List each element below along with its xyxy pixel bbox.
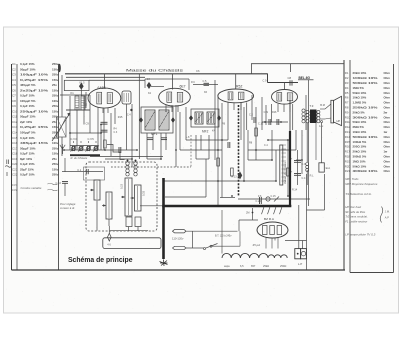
svg-text:657: 657: [251, 264, 256, 268]
svg-text:R2: R2: [345, 76, 349, 80]
svg-text:C13: C13: [12, 125, 18, 129]
svg-text:R6: R6: [345, 96, 349, 100]
svg-text:150v: 150v: [52, 88, 59, 92]
svg-text:C22: C22: [12, 173, 18, 177]
svg-text:C4: C4: [147, 77, 151, 81]
svg-text:C11: C11: [12, 115, 17, 119]
svg-text:6E7: 6E7: [180, 85, 186, 89]
svg-text:R9: R9: [345, 110, 349, 114]
svg-text:B.T. 110 à 245v: B.T. 110 à 245v: [215, 234, 232, 237]
svg-text:250v: 250v: [52, 162, 59, 166]
svg-text:C20: C20: [12, 162, 18, 166]
svg-text:C12: C12: [12, 120, 18, 124]
svg-text:0,33: 0,33: [142, 190, 146, 196]
svg-text:150v: 150v: [52, 67, 59, 71]
svg-text:R12: R12: [345, 125, 351, 129]
svg-text:R1: R1: [345, 71, 349, 75]
svg-text:C.V.O: C.V.O: [71, 137, 78, 141]
svg-text:R14: R14: [345, 135, 351, 139]
svg-text:1MΩ 10%: 1MΩ 10%: [353, 159, 366, 163]
svg-text:R21: R21: [345, 169, 351, 173]
svg-text:C9: C9: [86, 122, 90, 126]
svg-text:C.1: C.1: [77, 168, 82, 172]
svg-text:R4: R4: [345, 86, 349, 90]
svg-text:25kΩ: 25kΩ: [263, 264, 269, 268]
svg-text:R16: R16: [272, 111, 277, 114]
svg-text:T.3: T.3: [310, 104, 314, 108]
svg-text:500kΩ 10%: 500kΩ 10%: [353, 135, 379, 139]
svg-text:150v: 150v: [52, 167, 59, 171]
svg-text:250Ω: 250Ω: [280, 264, 286, 268]
svg-text:MF1: MF1: [151, 132, 158, 136]
svg-text:R8: R8: [345, 106, 349, 110]
svg-text:R5: R5: [345, 91, 349, 95]
svg-text:C4: C4: [12, 78, 16, 82]
svg-text:0,1µF 15%: 0,1µF 15%: [20, 162, 35, 166]
svg-text:K1: K1: [71, 91, 75, 95]
svg-text:MF2: MF2: [202, 130, 209, 134]
svg-text:C14: C14: [12, 131, 18, 135]
svg-text:aspa: aspa: [224, 265, 230, 268]
svg-text:CV1: CV1: [12, 183, 18, 187]
svg-text:500kΩ 10%: 500kΩ 10%: [353, 81, 379, 85]
svg-text:C6: C6: [12, 88, 16, 92]
svg-text:C7: C7: [12, 94, 16, 98]
svg-text:R. du Châssis: R. du Châssis: [71, 156, 88, 160]
svg-text:0,22: 0,22: [120, 183, 124, 189]
svg-text:Ohm: Ohm: [384, 101, 391, 105]
svg-text:50µµF 15%: 50µµF 15%: [20, 115, 36, 119]
svg-text:Tr2 trans.modulat.: Tr2 trans.modulat.: [345, 215, 368, 219]
svg-text:10kΩ 10%: 10kΩ 10%: [353, 130, 367, 134]
svg-text:0,1µF 10%: 0,1µF 10%: [20, 136, 35, 140]
svg-text:C1: C1: [12, 62, 16, 66]
svg-text:8µF 10%: 8µF 10%: [20, 157, 32, 161]
svg-text:2µF 10%: 2µF 10%: [20, 120, 32, 124]
svg-text:R3: R3: [345, 81, 349, 85]
svg-text:50µµF 10%: 50µµF 10%: [20, 67, 36, 71]
svg-text:CV2: CV2: [12, 188, 18, 192]
svg-text:F1 fusible secteur: F1 fusible secteur: [345, 219, 368, 223]
svg-text:C6: C6: [196, 69, 200, 73]
svg-text:150v: 150v: [52, 109, 59, 113]
svg-text:K1,5: K1,5: [80, 81, 86, 84]
svg-text:Ohm: Ohm: [384, 135, 391, 139]
svg-text:C.5: C.5: [203, 80, 208, 83]
svg-text:100µµF 10%: 100µµF 10%: [20, 73, 49, 77]
svg-text:C17: C17: [12, 146, 18, 150]
svg-text:250µµF 10%: 250µµF 10%: [20, 109, 49, 113]
svg-text:Ohm: Ohm: [384, 91, 391, 95]
svg-text:150v: 150v: [52, 78, 59, 82]
svg-text:C.24: C.24: [256, 200, 262, 203]
svg-text:20kΩ 10%: 20kΩ 10%: [353, 150, 367, 154]
svg-text:R15: R15: [118, 116, 123, 119]
svg-text:Exc: Exc: [326, 166, 331, 170]
svg-text:R7: R7: [345, 101, 349, 105]
svg-text:150v: 150v: [52, 152, 59, 156]
svg-text:250v: 250v: [52, 73, 59, 77]
svg-text:2MΩ 5%: 2MΩ 5%: [353, 125, 365, 129]
svg-text:50kΩ 10%: 50kΩ 10%: [353, 120, 367, 124]
svg-text:R.6: R.6: [191, 81, 195, 84]
svg-text:50kΩ 10%: 50kΩ 10%: [353, 164, 367, 168]
svg-text:R16: R16: [345, 145, 351, 149]
svg-text:Ohm: Ohm: [384, 140, 391, 144]
svg-text:100v: 100v: [52, 99, 59, 103]
svg-text:2M: 2M: [246, 212, 249, 215]
svg-text:250v: 250v: [52, 62, 59, 66]
svg-text:Ohm: Ohm: [384, 106, 391, 110]
svg-text:100µµF 5%: 100µµF 5%: [20, 99, 36, 103]
svg-text:250v: 250v: [52, 146, 59, 150]
svg-text:100kΩ 10%: 100kΩ 10%: [353, 76, 379, 80]
svg-text:L.P: L.P: [298, 262, 302, 266]
svg-text:C.V.5: C.V.5: [88, 137, 95, 141]
svg-text:C8: C8: [12, 99, 16, 103]
svg-text:C9: C9: [12, 104, 16, 108]
svg-text:R15: R15: [345, 140, 351, 144]
svg-text:R20: R20: [345, 164, 351, 168]
svg-text:Pour réglage: Pour réglage: [60, 202, 76, 206]
svg-text:MF1 Trafo: MF1 Trafo: [345, 177, 359, 181]
svg-text:0,25µF 15%: 0,25µF 15%: [20, 125, 49, 129]
svg-text:C16: C16: [12, 141, 18, 145]
svg-text:C.10: C.10: [56, 181, 62, 185]
svg-text:Ohm: Ohm: [384, 96, 391, 100]
svg-text:curseur à dr.: curseur à dr.: [60, 206, 75, 210]
svg-text:A.P: A.P: [385, 215, 389, 219]
svg-text:250v: 250v: [52, 173, 59, 177]
svg-text:Masse du Châssis: Masse du Châssis: [126, 68, 183, 72]
svg-text:20kΩ 5%: 20kΩ 5%: [353, 110, 366, 114]
svg-text:R13: R13: [345, 130, 351, 134]
svg-text:250kΩ 10%: 250kΩ 10%: [353, 106, 379, 110]
svg-text:BZ R.A: BZ R.A: [264, 217, 275, 221]
svg-text:R.14: R.14: [292, 189, 298, 192]
svg-text:C.4: C.4: [127, 113, 131, 116]
svg-text:R19: R19: [345, 159, 351, 163]
svg-text:6AB6: 6AB6: [98, 86, 106, 90]
svg-text:R5Z: R5Z: [236, 85, 242, 89]
svg-text:J.M.: J.M.: [385, 209, 390, 213]
svg-text:50kΩ 10%: 50kΩ 10%: [353, 91, 367, 95]
svg-text:20kΩ 10%: 20kΩ 10%: [353, 71, 367, 75]
svg-text:25v: 25v: [52, 83, 57, 87]
svg-text:4 6: 4 6: [107, 243, 111, 246]
svg-text:0,1µF 15%: 0,1µF 15%: [20, 104, 35, 108]
svg-text:R11: R11: [345, 120, 350, 124]
svg-text:Ohm: Ohm: [384, 115, 391, 119]
svg-text:C.9: C.9: [263, 79, 268, 82]
svg-text:R17: R17: [345, 150, 351, 154]
svg-text:300kΩ 10%: 300kΩ 10%: [353, 169, 379, 173]
svg-text:Ohm: Ohm: [384, 169, 391, 173]
svg-text:0,25µF 15%: 0,25µF 15%: [20, 78, 49, 82]
svg-text:C8: C8: [288, 76, 292, 80]
svg-text:HP: HP: [337, 119, 341, 123]
svg-text:R10: R10: [345, 115, 351, 119]
svg-text:C19: C19: [12, 157, 18, 161]
svg-text:C.3: C.3: [114, 131, 118, 134]
svg-text:0,5µF 10%: 0,5µF 10%: [20, 173, 35, 177]
svg-text:150v: 150v: [52, 125, 59, 129]
svg-text:Retour du Châssis: Retour du Châssis: [283, 161, 287, 184]
svg-text:BEL.6G: BEL.6G: [299, 76, 311, 80]
svg-text:C.12: C.12: [258, 123, 264, 126]
svg-text:45 µA: 45 µA: [253, 243, 261, 247]
svg-text:R18: R18: [345, 155, 351, 159]
svg-text:100kΩ 5%: 100kΩ 5%: [353, 140, 367, 144]
svg-text:Ohm: Ohm: [384, 86, 391, 90]
svg-text:25µF 15%: 25µF 15%: [20, 167, 34, 171]
svg-text:0,5µF 10%: 0,5µF 10%: [20, 94, 35, 98]
svg-text:0,1µF 15%: 0,1µF 15%: [20, 62, 35, 66]
svg-text:C3: C3: [12, 73, 16, 77]
svg-text:C18: C18: [12, 152, 18, 156]
svg-text:100v: 100v: [52, 141, 59, 145]
svg-text:10kΩ 10%: 10kΩ 10%: [353, 96, 367, 100]
svg-text:Ohm: Ohm: [384, 159, 391, 163]
svg-text:C.15: C.15: [271, 195, 277, 198]
svg-text:Ohm: Ohm: [384, 125, 391, 129]
svg-text:250Ω 10%: 250Ω 10%: [353, 145, 367, 149]
svg-text:100µµF 5%: 100µµF 5%: [20, 131, 36, 135]
svg-text:Ohm: Ohm: [384, 145, 391, 149]
svg-text:50µµF 10%: 50µµF 10%: [20, 146, 36, 150]
svg-text:C2: C2: [12, 67, 16, 71]
svg-text:SF selfs de filtre: SF selfs de filtre: [345, 210, 365, 214]
svg-text:C5: C5: [12, 83, 16, 87]
svg-text:25v: 25v: [52, 157, 57, 161]
svg-text:Ohm: Ohm: [384, 155, 391, 159]
svg-text:465µµF 5%: 465µµF 5%: [20, 83, 36, 87]
svg-text:110-120v: 110-120v: [172, 237, 184, 241]
svg-text:Ohm: Ohm: [384, 120, 391, 124]
svg-text:MF2 Moyenne fréquence: MF2 Moyenne fréquence: [345, 182, 378, 186]
svg-text:250v: 250v: [52, 104, 59, 108]
svg-text:C10: C10: [12, 109, 18, 113]
svg-text:Schéma de principe: Schéma de principe: [68, 257, 133, 264]
svg-text:Ohm: Ohm: [384, 164, 391, 168]
svg-text:A.H: A.H: [319, 124, 323, 128]
svg-text:6,5: 6,5: [240, 264, 244, 268]
svg-text:Ohm: Ohm: [384, 81, 391, 85]
svg-text:Tr1 Détectrice A.F.H.: Tr1 Détectrice A.F.H.: [345, 192, 372, 196]
svg-text:Ohm: Ohm: [384, 71, 391, 75]
svg-text:Ohm: Ohm: [384, 76, 391, 80]
svg-text:465µµF 15%: 465µµF 15%: [20, 141, 49, 145]
svg-text:300kΩ 10%: 300kΩ 10%: [353, 115, 379, 119]
svg-text:HP bloc haut: HP bloc haut: [345, 205, 361, 209]
svg-text:250v: 250v: [52, 94, 59, 98]
svg-text:C.4: C.4: [264, 144, 268, 147]
svg-text:C.0: C.0: [302, 163, 307, 166]
svg-text:300kΩ 5%: 300kΩ 5%: [353, 155, 367, 159]
svg-text:C15: C15: [12, 136, 18, 140]
svg-text:C.2: C.2: [249, 114, 254, 117]
svg-text:1,5MΩ 5%: 1,5MΩ 5%: [353, 101, 367, 105]
svg-text:LP lampe pilote 7V 0,3: LP lampe pilote 7V 0,3: [345, 232, 375, 236]
svg-text:C19: C19: [264, 111, 269, 114]
svg-text:1MΩ 5%: 1MΩ 5%: [353, 86, 365, 90]
svg-text:2x25µF 15%: 2x25µF 15%: [20, 88, 49, 92]
svg-text:Condos variable: Condos variable: [21, 186, 42, 190]
svg-text:C21: C21: [12, 167, 18, 171]
svg-text:0,5µF 15%: 0,5µF 15%: [20, 152, 35, 156]
svg-text:B.M: B.M: [320, 103, 325, 107]
svg-text:C.4: C.4: [302, 177, 307, 180]
svg-text:R.L: R.L: [310, 174, 315, 177]
